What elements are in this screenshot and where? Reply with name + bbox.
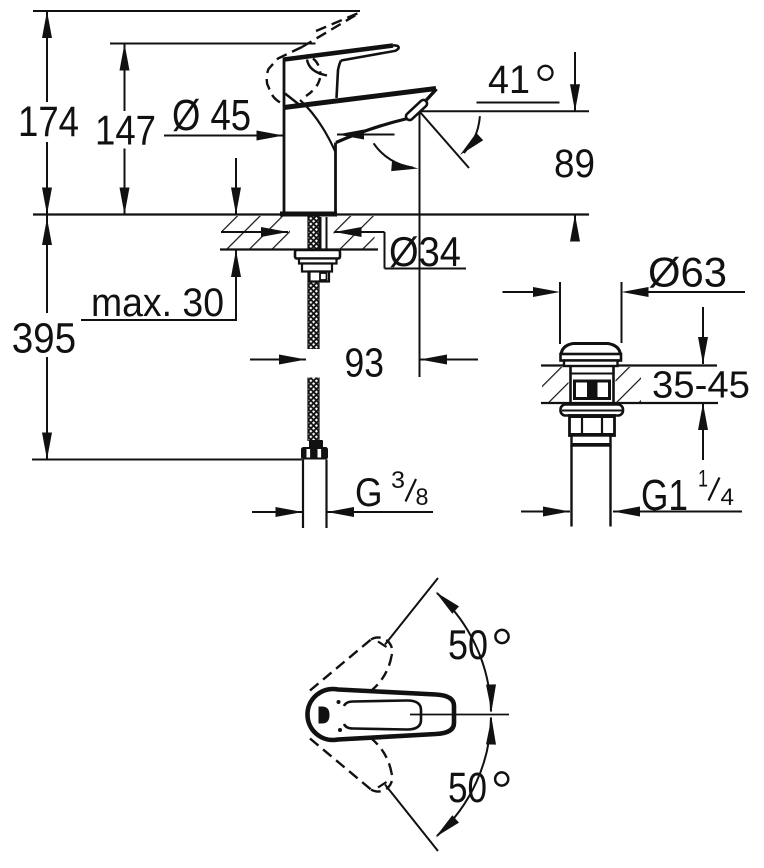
svg-text:89: 89 bbox=[554, 142, 595, 186]
svg-text:Ø63: Ø63 bbox=[648, 249, 727, 296]
svg-text:174: 174 bbox=[18, 98, 79, 146]
svg-text:max. 30: max. 30 bbox=[91, 281, 224, 325]
svg-text:4: 4 bbox=[721, 484, 735, 511]
svg-text:35-45: 35-45 bbox=[652, 365, 750, 407]
svg-text:G: G bbox=[355, 471, 383, 515]
svg-text:50: 50 bbox=[448, 621, 488, 668]
svg-text:50: 50 bbox=[448, 764, 487, 812]
svg-text:395: 395 bbox=[12, 315, 77, 363]
svg-text:G1: G1 bbox=[641, 471, 688, 520]
svg-text:93: 93 bbox=[345, 340, 385, 386]
svg-text:41: 41 bbox=[488, 58, 530, 102]
svg-text:8: 8 bbox=[416, 484, 429, 511]
svg-text:Ø 45: Ø 45 bbox=[172, 91, 251, 140]
svg-text:3: 3 bbox=[391, 467, 405, 494]
svg-text:147: 147 bbox=[95, 106, 156, 153]
svg-text:1: 1 bbox=[698, 466, 708, 493]
svg-text:Ø34: Ø34 bbox=[389, 228, 461, 275]
